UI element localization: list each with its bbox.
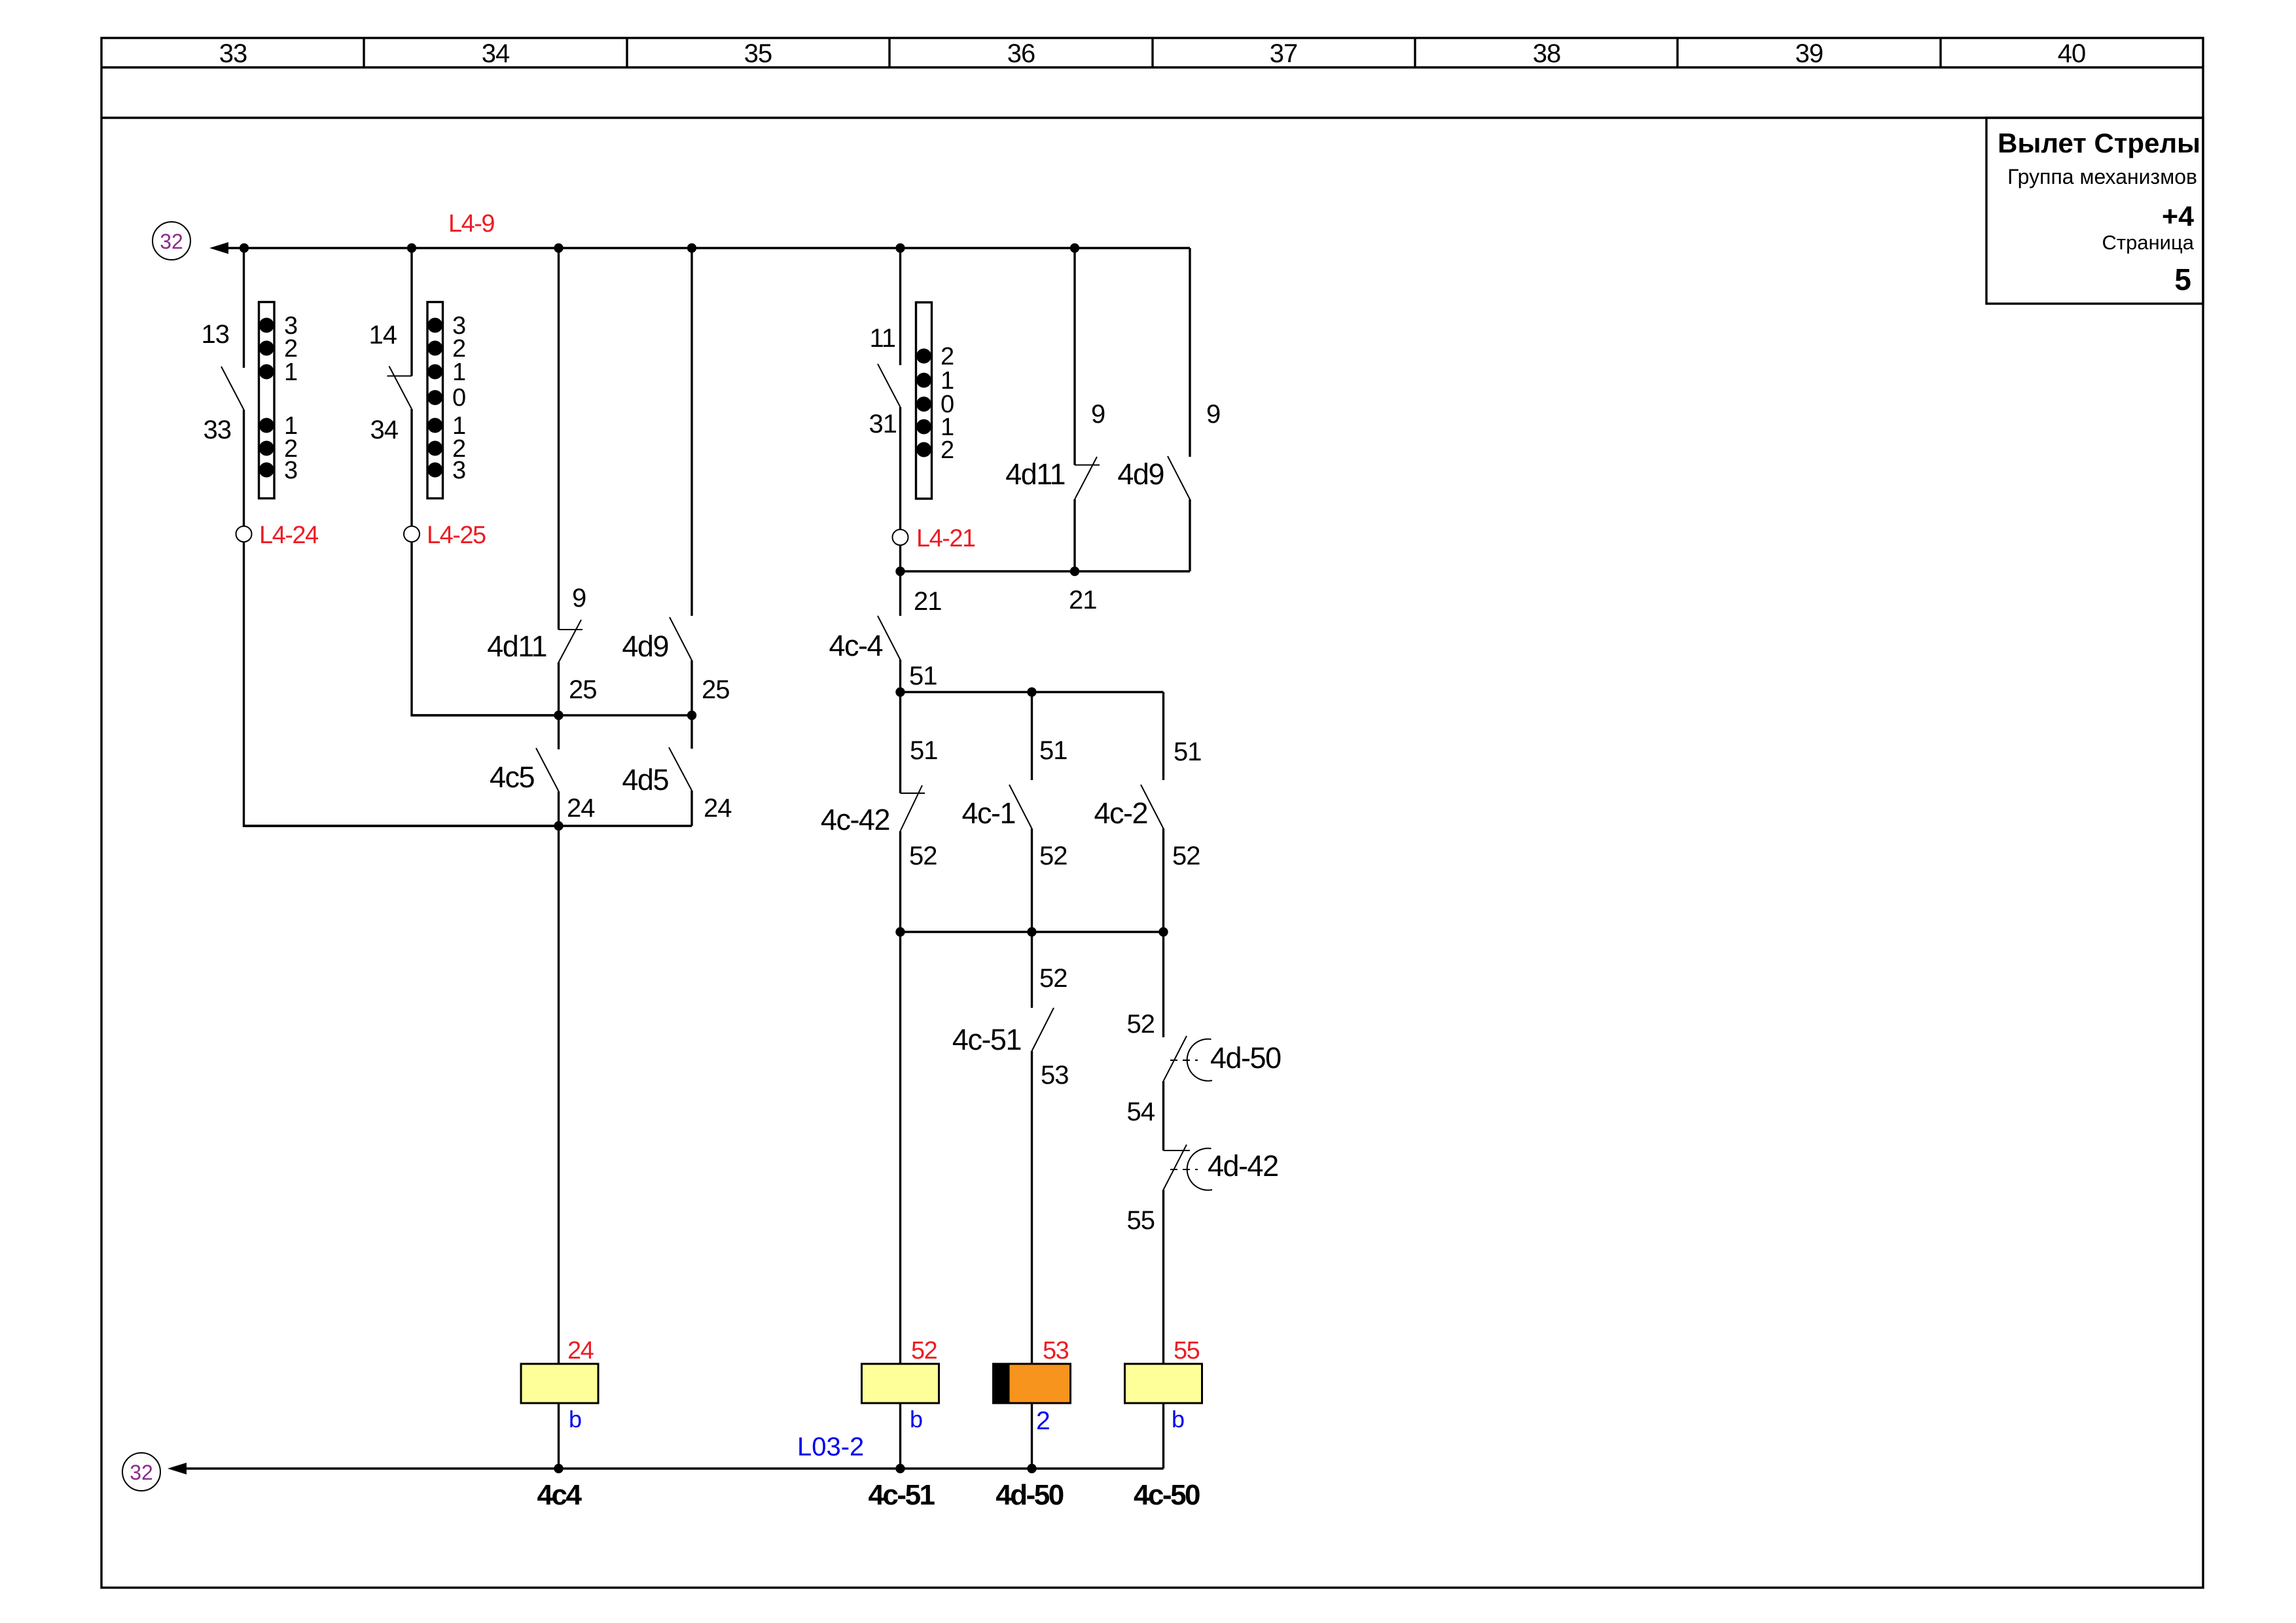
wire branch5 to 4c-42	[899, 692, 901, 794]
cam box 1 position labels	[284, 312, 298, 484]
dashed link 4d-42	[1170, 1169, 1198, 1170]
cam box 3 dots	[916, 349, 931, 457]
svg-text:4d9: 4d9	[1117, 457, 1164, 491]
wire branch5 to coil	[899, 932, 901, 1364]
junction bottom bus / coil1	[554, 1464, 563, 1473]
svg-text:4d-42: 4d-42	[1208, 1149, 1278, 1183]
wire bus 52	[901, 931, 1164, 933]
wire branch8 to 4c-51	[1031, 932, 1033, 1008]
wire branch4 upper	[691, 248, 692, 616]
wire link 24	[244, 825, 692, 827]
wire branch9 mid	[1162, 829, 1164, 932]
svg-text:b: b	[569, 1406, 582, 1433]
node 32 top reference circle	[152, 222, 190, 260]
svg-text:9: 9	[1206, 400, 1220, 429]
wire branch9 to 4d-50	[1162, 932, 1164, 1037]
svg-text:52: 52	[1172, 842, 1200, 870]
cam switch box 3	[916, 302, 932, 499]
svg-text:55: 55	[1127, 1206, 1155, 1235]
wire bus 51	[901, 691, 1164, 693]
svg-text:31: 31	[869, 410, 897, 438]
dashed link 4d-50	[1170, 1060, 1198, 1061]
switch contact 11 (NO) of cam switch	[878, 364, 901, 407]
svg-text:24: 24	[567, 1337, 594, 1364]
svg-text:14: 14	[369, 321, 397, 349]
svg-text:4c4: 4c4	[537, 1479, 583, 1511]
svg-text:4c-1: 4c-1	[961, 796, 1015, 830]
switch contact 14 (NC) of cam switch	[387, 366, 412, 410]
svg-text:51: 51	[909, 662, 937, 690]
arrow to node 32 bottom	[168, 1463, 187, 1474]
svg-text:38: 38	[1533, 39, 1561, 68]
lamp L4-25	[404, 526, 420, 542]
wire branch5 below lamp	[899, 545, 901, 616]
wire branch8 to coil	[1031, 1051, 1033, 1364]
svg-text:4d-50: 4d-50	[1210, 1041, 1281, 1075]
header second line	[101, 116, 2203, 118]
svg-text:5: 5	[2174, 262, 2191, 296]
wire coil4 to bus corner	[1162, 1403, 1164, 1469]
svg-text:9: 9	[1091, 400, 1105, 429]
wire branch9 upper	[1162, 692, 1164, 781]
svg-text:2: 2	[941, 343, 954, 370]
wire top bus L4-9	[227, 247, 1190, 249]
svg-text:36: 36	[1007, 39, 1035, 68]
relay contact 4c-4 (NO)	[878, 616, 901, 660]
wire link 25	[412, 714, 692, 716]
junction 25-link / branch3	[554, 711, 563, 720]
relay contact 4c-51 (NO mirrored)	[1032, 1008, 1054, 1051]
junction top bus / branch 14-34	[407, 243, 416, 253]
junction top bus / branch 4d11	[554, 243, 563, 253]
wire coil3 to bus	[1031, 1403, 1033, 1469]
wire bus 21	[901, 570, 1191, 572]
svg-text:51: 51	[1174, 738, 1202, 766]
svg-text:13: 13	[202, 320, 230, 349]
wire branch9 to coil	[1162, 1190, 1164, 1364]
relay contact 4c-2 (NO)	[1141, 785, 1164, 829]
relay contact 4c5 (NO)	[536, 748, 559, 791]
relay contact 4d-42 (NC with operator)	[1164, 1145, 1191, 1190]
wire branch7 lower	[1189, 499, 1191, 571]
svg-text:b: b	[910, 1406, 923, 1433]
wire branch3 mid2	[558, 791, 560, 1364]
cam box 2 position labels	[452, 312, 466, 484]
svg-text:2: 2	[1036, 1407, 1050, 1435]
svg-text:b: b	[1172, 1406, 1185, 1433]
svg-text:Вылет Стрелы: Вылет Стрелы	[1998, 128, 2200, 158]
relay contact 4d9 second (NO)	[1168, 456, 1190, 499]
svg-text:25: 25	[702, 675, 730, 704]
svg-text:L4-25: L4-25	[427, 522, 486, 549]
relay contact 4d11 second (NC)	[1075, 457, 1100, 499]
svg-text:L4-9: L4-9	[448, 210, 494, 238]
header column numbers 33-40	[219, 39, 2086, 68]
svg-text:33: 33	[219, 39, 247, 68]
wire branch1 middle	[243, 410, 245, 526]
wire coil2 to bus	[899, 1403, 901, 1469]
svg-text:51: 51	[910, 736, 938, 765]
relay contact 4d-50 (NO mirrored with operator)	[1164, 1036, 1187, 1081]
svg-text:52: 52	[1039, 964, 1067, 993]
operator arc 4d-42	[1187, 1149, 1212, 1190]
relay contact 4c-1 (NO)	[1009, 785, 1032, 829]
svg-text:3: 3	[284, 457, 298, 484]
junction 21-bus / branch5	[895, 567, 905, 576]
svg-text:4c-50: 4c-50	[1134, 1479, 1200, 1511]
svg-text:33: 33	[204, 416, 232, 444]
svg-text:9: 9	[572, 584, 586, 613]
svg-text:3: 3	[452, 457, 466, 484]
svg-text:35: 35	[744, 39, 772, 68]
junction bottom bus / coil2	[895, 1464, 905, 1473]
svg-text:21: 21	[914, 587, 942, 616]
relay contact 4d5 (NO)	[669, 747, 692, 791]
junction top bus / branch 13-33	[240, 243, 249, 253]
coil 4c4	[521, 1364, 598, 1403]
junction bus52 / branch 4c-1	[1027, 927, 1036, 936]
wire branch8 mid	[1031, 829, 1033, 932]
junction bus52 / branch 4c-2	[1158, 927, 1168, 936]
junction bus51 / branch 4c-1	[1027, 687, 1036, 696]
lamp L4-21	[893, 529, 908, 545]
svg-text:55: 55	[1174, 1337, 1200, 1364]
wire branch7 upper	[1189, 248, 1191, 457]
svg-text:4c5: 4c5	[490, 760, 535, 794]
svg-text:37: 37	[1270, 39, 1298, 68]
wire bottom bus L03-2	[185, 1467, 1164, 1469]
svg-text:L4-24: L4-24	[259, 522, 319, 549]
svg-text:4c-2: 4c-2	[1094, 796, 1147, 830]
junction 25-link / branch4	[687, 711, 696, 720]
cam box 1 dots	[259, 318, 274, 478]
svg-text:4c-51: 4c-51	[868, 1479, 935, 1511]
arrow to node 32 top	[209, 242, 228, 254]
junction bus52 / branch5	[895, 927, 905, 936]
svg-text:21: 21	[1069, 586, 1097, 615]
wire branch9 between contacts	[1162, 1081, 1164, 1150]
title block box	[1986, 118, 2203, 304]
cam box 2 dots	[427, 318, 442, 478]
svg-text:34: 34	[482, 39, 510, 68]
wire branch1 lower	[244, 542, 559, 826]
svg-text:2: 2	[941, 437, 954, 464]
svg-text:53: 53	[1043, 1337, 1069, 1364]
svg-text:52: 52	[1039, 842, 1067, 870]
junction top bus / branch 11-31	[895, 243, 905, 253]
relay contact 4c-42 (NC)	[901, 785, 925, 831]
wire branch6 lower	[1073, 499, 1075, 571]
header row bottom line	[101, 66, 2203, 68]
svg-text:40: 40	[2058, 39, 2086, 68]
lamp L4-24	[236, 526, 252, 542]
svg-text:4d-50: 4d-50	[996, 1479, 1063, 1511]
svg-text:4d5: 4d5	[622, 763, 668, 796]
junction top bus / branch 4d9	[687, 243, 696, 253]
node 32 bottom reference circle	[122, 1453, 160, 1491]
wire branch5 middle	[899, 407, 901, 529]
svg-text:53: 53	[1041, 1061, 1069, 1090]
relay contact 4d9 (NO)	[670, 617, 692, 660]
svg-text:32: 32	[160, 230, 183, 253]
svg-text:L03-2: L03-2	[797, 1433, 864, 1461]
wire branch8 upper	[1031, 692, 1033, 781]
cam switch box 1	[259, 302, 275, 499]
svg-text:24: 24	[567, 794, 595, 823]
svg-text:52: 52	[1127, 1010, 1155, 1039]
svg-text:Страница: Страница	[2102, 231, 2195, 254]
coil 4c-51	[862, 1364, 939, 1403]
cam switch box 2	[427, 302, 443, 499]
junction top bus / branch 4d11-2	[1070, 243, 1079, 253]
wire branch2 upper	[410, 248, 412, 376]
svg-text:0: 0	[452, 384, 466, 412]
svg-text:4d9: 4d9	[622, 630, 668, 663]
wire branch1 upper	[243, 248, 245, 368]
wire branch5 to bus51	[899, 660, 901, 692]
wire branch4 lower	[691, 791, 692, 826]
svg-text:52: 52	[911, 1337, 937, 1364]
svg-text:11: 11	[869, 324, 895, 353]
svg-text:4c-51: 4c-51	[952, 1023, 1021, 1056]
svg-text:25: 25	[569, 675, 597, 704]
cam box 3 position labels	[941, 343, 954, 464]
coil 4d-50 (orange with black band)	[994, 1364, 1071, 1403]
wire coil1 to bus	[558, 1403, 560, 1469]
svg-text:L4-21: L4-21	[916, 525, 975, 552]
junction 24-link / branch3	[554, 821, 563, 830]
svg-text:Группа механизмов: Группа механизмов	[2007, 165, 2197, 188]
wire branch2 lower	[412, 542, 559, 715]
coil 4c-50	[1125, 1364, 1202, 1403]
svg-text:4c-4: 4c-4	[829, 629, 882, 662]
junction bus51 / branch5	[895, 687, 905, 696]
wire branch3 mid1	[558, 662, 560, 749]
header column dividers	[364, 38, 1941, 67]
svg-text:4c-42: 4c-42	[821, 803, 889, 836]
wire branch4 mid	[691, 660, 692, 749]
junction 21-bus / branch6	[1070, 567, 1079, 576]
switch contact 13 (NO) of cam switch	[221, 366, 244, 410]
operator arc 4d-50	[1187, 1039, 1212, 1081]
wire branch2 middle	[410, 409, 412, 526]
svg-text:4d11: 4d11	[487, 630, 547, 663]
svg-text:1: 1	[452, 359, 466, 386]
wire branch5 to bus52	[899, 831, 901, 932]
svg-text:32: 32	[130, 1461, 153, 1484]
svg-text:54: 54	[1127, 1097, 1155, 1126]
relay contact 4d11 (NC)	[559, 620, 583, 662]
svg-text:39: 39	[1795, 39, 1823, 68]
junction bottom bus / coil3	[1027, 1464, 1036, 1473]
svg-text:34: 34	[370, 416, 399, 444]
svg-text:24: 24	[704, 794, 732, 823]
svg-text:4d11: 4d11	[1005, 457, 1065, 491]
wire branch3 upper	[558, 248, 560, 630]
svg-text:51: 51	[1039, 736, 1067, 765]
svg-text:52: 52	[909, 842, 937, 870]
wire branch6 upper	[1073, 248, 1075, 465]
svg-text:+4: +4	[2162, 201, 2194, 232]
svg-text:1: 1	[284, 359, 298, 386]
wire branch5 upper	[899, 248, 901, 365]
